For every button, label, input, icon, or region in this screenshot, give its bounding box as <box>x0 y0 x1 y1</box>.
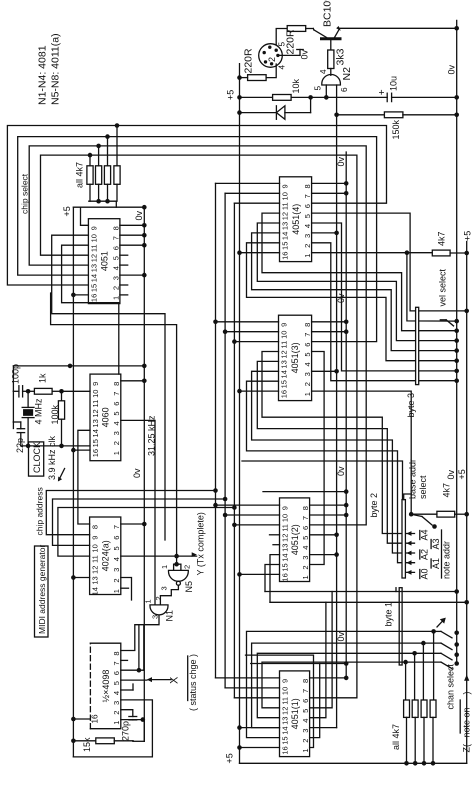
wire N2 input6 (serial data) <box>336 85 338 115</box>
svg-text:1: 1 <box>111 296 120 300</box>
wire chip-address bus 2 <box>53 497 228 546</box>
wire 4051 pin7 to 0v <box>120 233 147 238</box>
label 3.9 kHz clk <box>47 435 65 481</box>
svg-text:1: 1 <box>303 392 312 396</box>
capacitor 22p <box>13 422 24 453</box>
svg-text:3: 3 <box>303 372 312 376</box>
label byte 3 <box>406 393 416 418</box>
wire clock left vert <box>12 366 14 391</box>
wire 4098 pin6 node <box>121 625 144 673</box>
note N1-N4: 4081 / N5-N8: 4011(a) <box>37 33 62 105</box>
label chip address <box>35 487 45 535</box>
wire chan to 4k7 #3 <box>414 653 416 700</box>
wire serial tap 4051(3) pin3 <box>312 369 339 374</box>
wire chip-address bus 3 <box>58 505 237 556</box>
wire 4051 pin2 stub <box>120 284 128 286</box>
IC 4051 (chip select decoder) <box>88 219 120 304</box>
junction serial data node <box>334 113 339 118</box>
wire chan line 2 <box>252 641 459 728</box>
label 0v near 4024 <box>132 468 142 478</box>
junction Y/N5 <box>174 554 179 559</box>
svg-text:N5-N8: 4011(a): N5-N8: 4011(a) <box>50 33 62 105</box>
svg-text:9: 9 <box>89 226 98 230</box>
wire 4051 pin9 jog to +5 <box>81 207 89 225</box>
wire 220R to BC109 collector <box>306 28 314 30</box>
svg-text:10u: 10u <box>389 76 399 91</box>
wire chan to 4k7 #1 <box>433 631 435 700</box>
svg-text:10k: 10k <box>291 78 301 93</box>
svg-text:5: 5 <box>301 536 310 540</box>
svg-text:6: 6 <box>112 671 121 675</box>
wire 15k row <box>71 739 96 744</box>
wire note addr stair 1 <box>262 352 415 536</box>
junction 10u/0v <box>454 95 459 100</box>
resistor 10k <box>273 78 301 100</box>
resistor 4k7 (vel pullup) <box>432 231 469 255</box>
resistor 4k7 chip-select #1 <box>114 123 120 201</box>
svg-text:4: 4 <box>301 546 310 550</box>
wire 4098 pin1 row <box>121 717 145 722</box>
gate N2 NAND <box>314 67 353 92</box>
svg-text:all 4k7: all 4k7 <box>75 162 85 188</box>
resistor 220R (left) <box>243 48 267 81</box>
wire +5 to 4051(2) pin16 <box>237 572 279 577</box>
svg-text:1: 1 <box>112 589 121 593</box>
wire 4051(1) pin5 up <box>310 592 333 708</box>
svg-text:10: 10 <box>281 192 290 200</box>
wire vel c6 from 4051(4) pin4 <box>312 223 459 373</box>
svg-text:A0: A0 <box>420 568 430 579</box>
svg-text:2: 2 <box>111 286 120 290</box>
svg-text:A4: A4 <box>420 529 430 540</box>
wire vel c3 from 4051(4) pin13 <box>257 223 459 343</box>
wire 4060 pin8 to 0v <box>121 379 147 384</box>
svg-text:10: 10 <box>281 514 290 522</box>
wire BC109 emitter to 0v rail <box>340 27 457 29</box>
label all 4k7 (chan) <box>391 724 401 750</box>
wire 10u to 0v rail <box>392 96 457 98</box>
wire 4051(2) pin15 to chan common <box>265 565 280 592</box>
wire chip-select loop 3 <box>29 146 366 525</box>
svg-text:11: 11 <box>91 555 100 563</box>
wire N2 input5 <box>325 85 327 97</box>
svg-text:4: 4 <box>301 719 310 723</box>
svg-text:11: 11 <box>281 524 290 532</box>
wire 4051(2) pin14 to Z line <box>270 555 280 603</box>
svg-text:11: 11 <box>281 202 290 210</box>
label vel select <box>438 268 448 306</box>
svg-text:N1-N4: 4081: N1-N4: 4081 <box>37 45 49 105</box>
wire note addr stair 3 <box>252 371 415 555</box>
svg-text:13: 13 <box>281 717 290 725</box>
svg-text:13: 13 <box>89 264 98 272</box>
svg-text:3: 3 <box>303 234 312 238</box>
resistor 15k <box>82 737 114 752</box>
svg-text:CLOCK: CLOCK <box>32 442 42 473</box>
wire select tap 4051(3) pin10 <box>223 329 279 334</box>
wire 4024 pin2 stair <box>121 578 132 601</box>
wire 4051(4) pin1 to 4k7 node <box>312 250 433 255</box>
wire 10k row <box>240 96 273 98</box>
svg-text:10: 10 <box>91 390 100 398</box>
wire chip-address bus 1 <box>46 488 218 535</box>
resistor R 3k3 <box>328 48 347 68</box>
crystal X1 4MHz <box>22 391 43 446</box>
wire 4051(4) pin8 0v <box>312 181 349 186</box>
svg-text:5: 5 <box>112 546 121 550</box>
label A0 <box>420 568 430 579</box>
svg-text:14: 14 <box>91 429 100 437</box>
svg-text:8: 8 <box>301 679 310 683</box>
wire 4024 pin1 stub <box>121 587 129 589</box>
svg-text:9: 9 <box>280 323 289 327</box>
svg-text:8: 8 <box>91 525 100 529</box>
wire BC109 base to 3k3 <box>330 40 332 50</box>
wire chip-select loop 1 <box>7 126 386 286</box>
wire DIN pin4 down <box>266 64 276 78</box>
svg-text:A3: A3 <box>431 538 441 549</box>
svg-text:6: 6 <box>301 699 310 703</box>
svg-text:8: 8 <box>112 382 121 386</box>
svg-text:4051(3): 4051(3) <box>290 342 300 373</box>
svg-text:8: 8 <box>303 184 312 188</box>
wire chan line 4 <box>262 660 459 708</box>
resistor 4k7 (base addr) <box>411 483 469 517</box>
svg-text:4: 4 <box>278 65 287 70</box>
svg-text:15: 15 <box>281 242 290 250</box>
wire DIN pin2 to 0v <box>278 54 300 56</box>
wire note addr stair 5 <box>242 461 415 575</box>
wire 4051 pin6 to 0v <box>120 243 147 248</box>
junction emitter/0v rail <box>454 26 459 31</box>
junction 100p/xtal <box>26 389 31 394</box>
wire 4098 pin5 stub <box>121 679 147 681</box>
junction 0v rail top <box>142 205 147 210</box>
wire serial to 150k <box>337 114 385 116</box>
svg-text:14: 14 <box>91 587 100 595</box>
svg-text:4 MHz: 4 MHz <box>34 398 44 425</box>
wire select tap 4051(2) pin9 <box>213 503 279 508</box>
svg-text:11: 11 <box>91 400 100 408</box>
svg-text:4: 4 <box>303 224 312 228</box>
svg-text:0v: 0v <box>336 466 346 476</box>
wire chan common top <box>265 588 459 594</box>
DIN connector MIDI out <box>259 42 287 70</box>
svg-text:14: 14 <box>281 553 290 561</box>
label A4 <box>420 529 430 540</box>
label all 4k7 (chip select) <box>75 162 85 188</box>
svg-text:+: + <box>377 89 388 95</box>
wire 4051(3) pin1 to base 4k7 <box>312 391 414 516</box>
wire vel c4 from 4051(4) pin14 <box>252 233 459 353</box>
svg-text:13: 13 <box>280 360 289 368</box>
svg-text:1k: 1k <box>38 373 48 383</box>
wire select bus B <box>225 193 279 688</box>
svg-text:16: 16 <box>281 746 290 754</box>
junction 1k/100k <box>59 389 64 394</box>
svg-text:8: 8 <box>301 506 310 510</box>
svg-text:chip select: chip select <box>20 173 30 214</box>
label A3 <box>431 538 441 549</box>
wire 4051 pin10 down <box>52 235 165 540</box>
IC 4024(a) (chip address counter) <box>90 517 122 595</box>
svg-text:all 4k7: all 4k7 <box>391 724 401 750</box>
label chan select <box>446 663 456 709</box>
svg-text:4051: 4051 <box>99 251 109 271</box>
wire 4051(4) pin7 0v <box>312 191 349 196</box>
svg-text:3: 3 <box>112 701 121 705</box>
wire 4051(2) pin12 stub <box>270 534 280 536</box>
svg-text:3k3: 3k3 <box>335 48 347 65</box>
svg-text:note on: note on <box>462 707 472 737</box>
wire 3k3 to N2 output <box>330 69 332 76</box>
junction N2 in5 node <box>324 95 329 100</box>
wire 4060 pin14 to 4024 clk <box>78 430 90 524</box>
wire 4051(2) pin7 0v <box>310 513 349 518</box>
wire base addr bar hook <box>404 494 412 500</box>
wire 15k to 0v corner <box>114 740 144 743</box>
wire 4051 pin5 stub <box>120 254 128 256</box>
svg-text:6: 6 <box>112 536 121 540</box>
resistor 4k7 chan #2 <box>421 700 427 766</box>
wire N1 out to 4098 <box>121 616 159 651</box>
label +5 mid-right <box>457 469 467 479</box>
wire +5 to 4051(4) pin16 <box>237 250 279 255</box>
svg-text:4k7: 4k7 <box>442 483 452 498</box>
wire +5 to 4051(1) pin14 row <box>237 725 279 730</box>
wire vel contact 1 <box>407 253 459 323</box>
svg-text:4: 4 <box>303 362 312 366</box>
svg-text:9: 9 <box>281 506 290 510</box>
arrow Z on +5 rail <box>464 675 469 681</box>
label byte 2 <box>369 493 379 518</box>
wire BC109 collector bend <box>312 29 315 30</box>
svg-text:4060: 4060 <box>101 407 111 427</box>
svg-text:3.9 kHz clk: 3.9 kHz clk <box>47 435 57 480</box>
svg-text:1: 1 <box>301 575 310 579</box>
svg-text:4: 4 <box>112 557 121 561</box>
resistor 220R (top) <box>285 26 306 55</box>
wire chan line 1 <box>247 629 460 737</box>
svg-text:5: 5 <box>112 681 121 685</box>
svg-text:8: 8 <box>111 226 120 230</box>
arrow X (status chge) <box>147 676 181 684</box>
wire +5 to 4051(3) pin16 <box>237 389 278 394</box>
label Z (note on) <box>460 692 471 753</box>
svg-text:6: 6 <box>303 343 312 347</box>
svg-text:5: 5 <box>314 86 323 91</box>
rail +5 bottom <box>225 753 467 763</box>
wire 4024 pin4 Y node <box>121 555 197 557</box>
wire 4098 pin7 stub <box>121 659 128 661</box>
svg-text:11: 11 <box>281 697 290 705</box>
resistor 150k <box>384 112 403 140</box>
svg-text:12: 12 <box>281 707 290 715</box>
wire vel c2 from 4051(4) pin12 <box>262 213 459 333</box>
svg-text:9: 9 <box>91 536 100 540</box>
wire serial tap 4051(2) pin3 <box>310 552 339 557</box>
arrow byte1 mark <box>437 618 446 627</box>
svg-text:4051(4): 4051(4) <box>291 204 301 235</box>
svg-text:0v: 0v <box>447 64 457 74</box>
wire select tap 4051(3) pin9 <box>213 320 278 325</box>
IC 4051(1) <box>280 671 311 757</box>
capacitor 10u <box>377 76 398 102</box>
label chip select <box>20 173 30 214</box>
wire vel c7 from 4051(4) pin2 <box>312 243 459 383</box>
svg-text:1: 1 <box>301 748 310 752</box>
junction +5/220R <box>237 75 242 80</box>
svg-text:3: 3 <box>112 431 121 435</box>
rail 0v (left column) <box>134 207 145 741</box>
svg-text:12: 12 <box>280 350 289 358</box>
svg-text:3: 3 <box>111 276 120 280</box>
svg-text:+5: +5 <box>225 753 235 763</box>
svg-text:9: 9 <box>281 184 290 188</box>
IC 4051(3) <box>279 315 313 400</box>
svg-text:15: 15 <box>280 380 289 388</box>
label 0v mid-right <box>446 469 456 479</box>
svg-text:chan select: chan select <box>446 663 456 709</box>
wire 4024 pin14 to +5 <box>71 575 90 580</box>
wire 4051(2) pin8 0v <box>310 503 349 508</box>
wire 4051(1) pin2 up <box>251 664 347 738</box>
svg-text:14: 14 <box>89 274 98 282</box>
svg-text:12: 12 <box>91 566 100 574</box>
transistor Q1 BC109 <box>314 0 341 39</box>
svg-text:0v: 0v <box>446 469 456 479</box>
wire clock bottom row <box>13 391 90 448</box>
svg-text:9: 9 <box>91 382 100 386</box>
svg-text:½×4098: ½×4098 <box>101 670 111 703</box>
wire 4051(2) pin13 stub <box>273 544 280 546</box>
wire 4051 pin8 to 0v <box>120 223 147 228</box>
resistor 100k <box>50 391 65 446</box>
svg-text:11: 11 <box>89 244 98 252</box>
svg-text:13: 13 <box>281 544 290 552</box>
wire chan line 3 <box>257 651 459 718</box>
capacitor 270p <box>121 717 137 742</box>
wire serial tap 4051(2) pin5 <box>310 533 339 538</box>
svg-text:1: 1 <box>112 451 121 455</box>
svg-text:byte 1: byte 1 <box>384 602 394 627</box>
svg-text:12: 12 <box>281 212 290 220</box>
wire +5 to 4051(1) pin16 <box>237 745 279 750</box>
wire select tap 4051(3) pin11 <box>232 339 278 344</box>
svg-text:7: 7 <box>111 236 120 240</box>
wire select bus A <box>216 183 280 678</box>
svg-text:10: 10 <box>91 544 100 552</box>
gate N5 NAND <box>160 565 195 593</box>
svg-text:3: 3 <box>151 615 160 619</box>
wire chip-select loop 4 <box>41 155 357 698</box>
svg-text:6: 6 <box>112 402 121 406</box>
svg-text:3: 3 <box>301 556 310 560</box>
svg-text:7: 7 <box>112 525 121 529</box>
wire 4051(1) pin8 0v <box>310 676 349 681</box>
wire 4051(4) pin5 to vel common <box>312 213 469 313</box>
svg-text:3: 3 <box>112 568 121 572</box>
svg-text:select: select <box>418 475 428 499</box>
svg-text:16: 16 <box>91 449 100 457</box>
svg-text:12: 12 <box>89 254 98 262</box>
svg-text:16: 16 <box>281 252 290 260</box>
svg-text:MIDI address generator: MIDI address generator <box>37 545 47 634</box>
wire 0v bottom-left corner <box>143 720 145 742</box>
svg-text:15k: 15k <box>82 737 92 752</box>
svg-text:6: 6 <box>303 204 312 208</box>
wire 4098 pin2 to 270p <box>121 710 133 717</box>
svg-text:+5: +5 <box>463 231 473 241</box>
wire note addr stair 4 <box>247 381 415 565</box>
junction 150k/0v <box>454 113 459 118</box>
wire select tap 4051(2) pin11 <box>232 523 279 528</box>
IC 4051(2) <box>280 498 311 582</box>
svg-text:5: 5 <box>301 709 310 713</box>
svg-text:6: 6 <box>340 87 349 92</box>
svg-text:4024(a): 4024(a) <box>100 540 110 571</box>
wire chan to 4k7 #2 <box>422 643 424 700</box>
0v terminal near DIN <box>297 49 310 59</box>
svg-text:5: 5 <box>303 352 312 356</box>
wire 4024 pin7 to 0v <box>121 522 147 527</box>
svg-text:2: 2 <box>301 565 310 569</box>
svg-text:9: 9 <box>281 679 290 683</box>
svg-text:2: 2 <box>301 739 310 743</box>
switch chan-select bar <box>399 588 402 665</box>
svg-text:16: 16 <box>91 714 100 724</box>
junction diode node <box>308 95 313 100</box>
svg-text:7: 7 <box>112 392 121 396</box>
svg-text:11: 11 <box>280 341 289 349</box>
label MIDI address generator <box>35 545 49 637</box>
svg-text:base addr: base addr <box>408 459 418 499</box>
svg-text:15: 15 <box>281 563 290 571</box>
label A2 <box>420 549 430 560</box>
svg-text:13: 13 <box>91 576 100 584</box>
svg-text:10: 10 <box>281 687 290 695</box>
wire serial tap 4051(4) pin3 <box>312 231 339 236</box>
svg-text:5: 5 <box>303 214 312 218</box>
svg-text:+5: +5 <box>62 206 72 216</box>
junction diode/+5 <box>237 110 242 115</box>
gate N1 AND <box>144 596 175 621</box>
svg-text:100k: 100k <box>50 404 60 424</box>
wire to N5 inputs <box>51 293 177 564</box>
wire 4051(3) pin8 0v <box>312 320 349 325</box>
svg-text:2: 2 <box>112 711 121 715</box>
svg-text:N2: N2 <box>341 67 353 81</box>
wire chan to 4k7 #4 <box>405 662 407 700</box>
svg-text:5: 5 <box>111 256 120 260</box>
label CLOCK box <box>29 442 44 476</box>
wire 31.25kHz 4060 to N1 <box>121 420 155 605</box>
wire note addr stair 2 <box>257 361 414 545</box>
svg-text:1: 1 <box>303 254 312 258</box>
wire 4051 pin3 to 0v <box>120 273 147 278</box>
resistor 1k <box>28 373 61 394</box>
svg-text:7: 7 <box>112 661 121 665</box>
resistor 4k7 chip-select #2 <box>104 134 110 201</box>
wire 150k to 0v rail <box>403 114 457 116</box>
svg-text:4k7: 4k7 <box>437 231 447 246</box>
wire select bus C <box>234 203 279 698</box>
svg-text:2: 2 <box>154 596 163 600</box>
svg-text:15: 15 <box>89 284 98 292</box>
wire 4051 pin1 stub <box>120 294 128 296</box>
svg-text:7: 7 <box>303 333 312 337</box>
svg-text:3: 3 <box>301 729 310 733</box>
